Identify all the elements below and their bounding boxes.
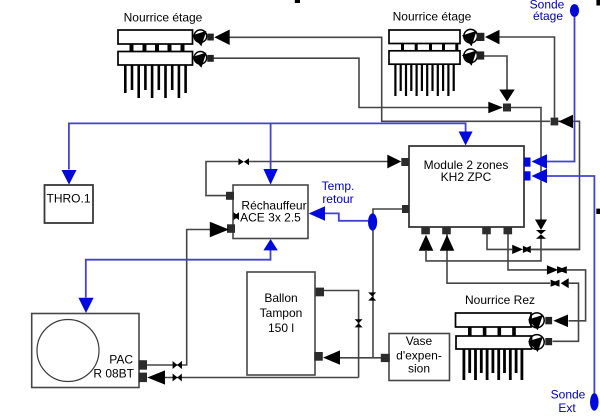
svg-text:PAC: PAC <box>109 353 133 367</box>
svg-text:THRO.1: THRO.1 <box>46 192 90 206</box>
svg-text:Ballon: Ballon <box>264 291 297 305</box>
svg-text:sion: sion <box>408 362 430 376</box>
svg-text:Nourrice étage: Nourrice étage <box>124 11 203 25</box>
svg-text:R 08BT: R 08BT <box>93 367 134 381</box>
svg-text:150 l: 150 l <box>268 321 294 335</box>
svg-text:Tampon: Tampon <box>260 306 303 320</box>
svg-text:Sonde: Sonde <box>551 388 586 402</box>
svg-text:Vase: Vase <box>406 334 433 348</box>
svg-text:Nourrice Rez: Nourrice Rez <box>465 293 535 307</box>
svg-text:étage: étage <box>533 9 563 23</box>
svg-text:d'expen-: d'expen- <box>396 349 442 363</box>
svg-text:Temp.: Temp. <box>322 179 355 193</box>
svg-text:KH2 ZPC: KH2 ZPC <box>441 170 492 184</box>
svg-text:Ext: Ext <box>558 401 576 415</box>
svg-text:retour: retour <box>322 192 353 206</box>
svg-text:Nourrice étage: Nourrice étage <box>393 10 472 24</box>
svg-text:ACE 3x 2.5: ACE 3x 2.5 <box>240 211 301 225</box>
